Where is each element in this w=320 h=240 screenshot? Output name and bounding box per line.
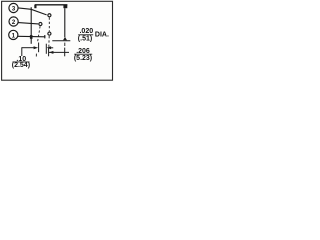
svg-text:(2.54): (2.54) (12, 62, 30, 69)
wire from circle 2 to pin 2 (18, 23, 38, 24)
svg-text:.020: .020 (79, 28, 93, 35)
dash below pin2 bar (35, 54, 37, 57)
wire from circle 1 to pin 1 (18, 35, 46, 38)
extension bar pin2 column (38, 43, 40, 53)
junction tick on left pin (30, 35, 33, 39)
dim text .020/(.51) DIA. (78, 28, 109, 42)
dim text .206/(5.23) (74, 48, 92, 62)
tail right of .10 arrow (51, 47, 54, 49)
pin tip arrowhead (63, 37, 67, 40)
dim text .10/(2.54) (12, 56, 30, 69)
dim .10 leader: horizontal with arrow (22, 47, 34, 49)
arrowhead pointing left at .10 right bar (47, 46, 52, 49)
extension line right pin column (64, 48, 66, 57)
svg-text:2: 2 (12, 20, 16, 26)
tick at end of wire 1 (44, 35, 46, 38)
dashed centerline below pin1 (48, 36, 50, 48)
extension bar pin1 column (48, 48, 50, 56)
node circle 3 (9, 3, 18, 12)
dim .10 leader: vertical from text (21, 47, 23, 56)
svg-text:(.51): (.51) (78, 35, 92, 42)
dashed centerline below right pin (64, 43, 66, 46)
pin 3 terminal circle (48, 14, 51, 17)
node circle 2 (9, 17, 18, 26)
svg-text:(5.23): (5.23) (74, 55, 92, 62)
pin 2 terminal circle (39, 22, 42, 25)
dim .206 line (49, 51, 69, 53)
body bottom line (side view) (35, 4, 68, 6)
left vertical pin line (30, 7, 32, 44)
right pin shaft (64, 8, 66, 37)
pin 1 terminal circle (48, 32, 51, 35)
extension bar for .10 right side (45, 44, 47, 54)
arrowhead pointing right at pin2 bar (34, 46, 39, 49)
svg-text:1: 1 (12, 33, 16, 39)
node circle 1 (9, 30, 18, 39)
leader line under pin tip (52, 40, 70, 42)
border frame (2, 1, 113, 80)
left pin stub (34, 5, 36, 8)
svg-text:DIA.: DIA. (95, 31, 109, 38)
arrowhead pointing left at pin1 bar (49, 51, 54, 54)
dashed centerline between pin3 and pin1 (48, 17, 50, 31)
svg-text:3: 3 (12, 6, 16, 12)
right pin head (63, 5, 67, 8)
wire from circle 3 to pin 3 (18, 8, 46, 15)
dashed centerline below pin2 (38, 26, 41, 42)
